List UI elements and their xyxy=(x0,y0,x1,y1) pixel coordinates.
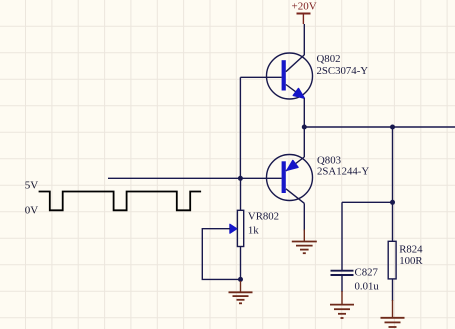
node base junction xyxy=(238,176,243,181)
ground under R824 xyxy=(381,300,405,327)
transistor Q802 xyxy=(267,53,313,99)
wire to R824 xyxy=(392,127,394,241)
svg-text:2SC3074-Y: 2SC3074-Y xyxy=(317,65,369,77)
svg-text:VR802: VR802 xyxy=(248,211,279,223)
node R824 branch xyxy=(390,125,395,130)
svg-text:0.01u: 0.01u xyxy=(355,281,380,293)
capacitor C827 xyxy=(331,202,354,292)
waveform square wave xyxy=(39,192,202,211)
wire Q802 emitter to Q803 emitter xyxy=(303,98,305,157)
node output junction xyxy=(302,125,307,130)
ground under VR802 xyxy=(229,281,253,303)
resistor R824 xyxy=(388,241,396,301)
svg-text:1k: 1k xyxy=(248,225,259,237)
svg-text:Q802: Q802 xyxy=(317,53,341,65)
ground under Q803 xyxy=(292,230,317,254)
wire Q802 base xyxy=(240,76,281,78)
svg-text:C827: C827 xyxy=(355,267,379,279)
ground under C827 xyxy=(330,291,354,318)
svg-text:100R: 100R xyxy=(399,255,423,267)
svg-text:R824: R824 xyxy=(399,243,423,255)
wire output to right edge xyxy=(304,126,455,128)
svg-text:0V: 0V xyxy=(25,205,39,217)
svg-text:5V: 5V xyxy=(25,180,39,192)
wire Q803 base input xyxy=(108,177,282,179)
node VR802 bottom junction xyxy=(238,277,243,282)
wire Q803 collector down xyxy=(303,203,305,230)
wire collector Q802 to +20V xyxy=(303,24,305,55)
wire C827 to R824 branch xyxy=(342,201,393,203)
svg-text:+20V: +20V xyxy=(292,1,317,13)
potentiometer VR802 xyxy=(202,178,243,279)
svg-text:2SA1244-Y: 2SA1244-Y xyxy=(317,166,369,178)
node C827 junction xyxy=(390,200,395,205)
wire Q802 base riser xyxy=(239,77,241,178)
power +20V xyxy=(292,1,317,25)
transistor Q803 xyxy=(267,155,313,204)
